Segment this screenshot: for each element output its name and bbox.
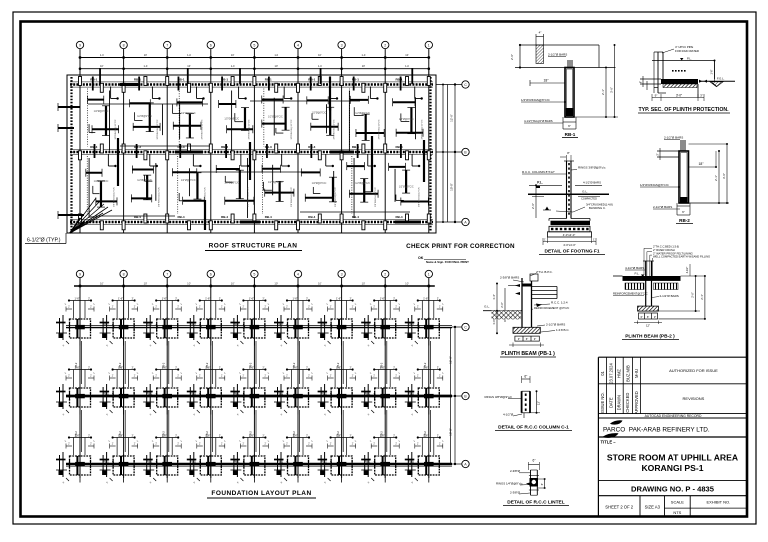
svg-text:10': 10'	[362, 282, 366, 286]
svg-text:1-0: 1-0	[405, 64, 409, 68]
svg-text:18": 18"	[699, 162, 705, 166]
svg-text:P.L.: P.L.	[687, 57, 692, 61]
svg-text:1-0: 1-0	[231, 64, 235, 68]
svg-text:10'-0": 10'-0"	[450, 183, 454, 191]
svg-text:1'-6": 1'-6"	[711, 69, 714, 74]
svg-text:SHEET 2 OF 2: SHEET 2 OF 2	[605, 505, 634, 510]
svg-text:CHECKED: CHECKED	[625, 393, 630, 413]
svg-text:3/8"RINGS@12"C/C: 3/8"RINGS@12"C/C	[248, 187, 250, 207]
svg-text:1'-6": 1'-6"	[336, 297, 341, 300]
svg-text:1'-0": 1'-0"	[492, 319, 496, 325]
svg-text:SIZE A3: SIZE A3	[645, 505, 661, 510]
svg-text:1'-6": 1'-6"	[293, 297, 298, 300]
svg-text:1'-6": 1'-6"	[293, 366, 298, 369]
svg-text:10': 10'	[231, 282, 235, 286]
svg-text:12": 12"	[537, 401, 541, 405]
svg-text:G.L.: G.L.	[484, 305, 490, 309]
svg-text:4: 4	[297, 44, 299, 48]
svg-text:1'-6": 1'-6"	[162, 366, 167, 369]
svg-text:6": 6"	[682, 210, 685, 214]
svg-text:4'-0"x4'-0": 4'-0"x4'-0"	[563, 233, 576, 237]
svg-text:RINGS 1/4"Ø@9"c/c: RINGS 1/4"Ø@9"c/c	[496, 482, 523, 486]
svg-text:4: 4	[297, 273, 299, 277]
svg-text:3/8"RINGS@12"C/C: 3/8"RINGS@12"C/C	[158, 187, 160, 207]
svg-text:DETAIL OF R.C.C LINTEL: DETAIL OF R.C.C LINTEL	[507, 500, 564, 506]
svg-text:PB-1: PB-1	[365, 459, 371, 463]
svg-text:3'-6": 3'-6"	[722, 173, 726, 179]
svg-text:18": 18"	[544, 79, 550, 83]
svg-text:AUTHORIZED FOR ISSUE: AUTHORIZED FOR ISSUE	[669, 368, 718, 373]
svg-text:G.L.: G.L.	[582, 190, 588, 194]
svg-text:PB-1: PB-1	[234, 322, 240, 326]
svg-text:PB-1: PB-1	[321, 391, 327, 395]
svg-text:FOR RAIN WATER: FOR RAIN WATER	[675, 49, 699, 53]
svg-text:1'-6": 1'-6"	[205, 297, 210, 300]
svg-text:6": 6"	[524, 375, 527, 379]
svg-text:Name & Sign. FOR FINAL PRINT: Name & Sign. FOR FINAL PRINT	[426, 260, 469, 264]
svg-text:RINGS 3/8"Ø@9"c/c: RINGS 3/8"Ø@9"c/c	[485, 395, 513, 399]
svg-text:PB-1: PB-1	[277, 391, 283, 395]
svg-text:10': 10'	[275, 64, 279, 68]
svg-text:10': 10'	[100, 282, 104, 286]
svg-text:DETAIL OF R.C.C COLUMN C-1: DETAIL OF R.C.C COLUMN C-1	[498, 425, 569, 431]
svg-text:RB-4: RB-4	[134, 215, 141, 219]
svg-text:1'-6": 1'-6"	[75, 434, 80, 437]
svg-text:RB-4: RB-4	[395, 215, 402, 219]
svg-text:R.C.C. 1:2:4: R.C.C. 1:2:4	[551, 301, 568, 305]
svg-text:PB-1: PB-1	[103, 322, 109, 326]
svg-text:1/2"Ø@9"C/C: 1/2"Ø@9"C/C	[399, 185, 414, 188]
svg-text:SCALE: SCALE	[671, 500, 684, 505]
svg-text:01: 01	[600, 371, 605, 376]
svg-text:STORE ROOM AT UPHILL AREA: STORE ROOM AT UPHILL AREA	[607, 452, 738, 462]
svg-text:2'-1": 2'-1"	[700, 294, 704, 300]
svg-text:F.G.L.: F.G.L.	[717, 77, 725, 81]
svg-text:PB-1: PB-1	[190, 459, 196, 463]
svg-text:R.C.C. COLUMN 8"X12": R.C.C. COLUMN 8"X12"	[522, 170, 555, 174]
svg-text:1'-6": 1'-6"	[205, 366, 210, 369]
svg-text:2'-6": 2'-6"	[500, 302, 504, 308]
svg-text:1/2"Ø@9"C/C: 1/2"Ø@9"C/C	[312, 112, 327, 115]
svg-text:EXHIBIT NO.: EXHIBIT NO.	[706, 500, 730, 505]
svg-text:RB-4: RB-4	[308, 215, 315, 219]
svg-text:1/2"Ø@9"C/C: 1/2"Ø@9"C/C	[137, 115, 152, 118]
svg-text:2'-6": 2'-6"	[510, 54, 514, 60]
svg-text:4'-0"x4'-0": 4'-0"x4'-0"	[563, 243, 576, 247]
svg-text:5: 5	[253, 44, 255, 48]
svg-text:2'-6": 2'-6"	[531, 203, 535, 209]
svg-text:4-1/2"Ø BARS: 4-1/2"Ø BARS	[625, 266, 644, 270]
svg-text:PB-1: PB-1	[408, 322, 414, 326]
svg-text:1'-6": 1'-6"	[118, 366, 123, 369]
svg-text:1'-6": 1'-6"	[75, 297, 80, 300]
svg-text:TYP. SEC. OF PLINTH PROTECTION: TYP. SEC. OF PLINTH PROTECTION.	[638, 107, 729, 113]
svg-text:C: C	[464, 83, 467, 87]
svg-text:PB-1: PB-1	[321, 459, 327, 463]
svg-text:1: 1	[428, 273, 430, 277]
svg-text:1'-6": 1'-6"	[249, 366, 254, 369]
svg-text:PB-1: PB-1	[408, 391, 414, 395]
svg-text:PB-1: PB-1	[365, 322, 371, 326]
svg-text:3": 3"	[700, 94, 703, 98]
svg-text:2: 2	[384, 273, 386, 277]
svg-text:WELL COMPACTED EARTH W/SAND FI: WELL COMPACTED EARTH W/SAND FILLING	[653, 255, 710, 259]
svg-text:6": 6"	[526, 337, 528, 341]
svg-text:PB-1: PB-1	[103, 391, 109, 395]
svg-text:PB-1: PB-1	[103, 459, 109, 463]
svg-text:1'-6": 1'-6"	[118, 434, 123, 437]
svg-text:6": 6"	[540, 483, 544, 485]
svg-text:OK: OK	[418, 256, 424, 260]
svg-text:PB-1: PB-1	[147, 459, 153, 463]
svg-text:6": 6"	[647, 315, 649, 319]
svg-text:6": 6"	[533, 459, 536, 463]
svg-text:6": 6"	[640, 81, 643, 83]
svg-text:6: 6	[210, 273, 212, 277]
svg-text:7: 7	[166, 44, 168, 48]
svg-text:10'-0": 10'-0"	[449, 428, 453, 436]
svg-text:PB-1: PB-1	[147, 322, 153, 326]
svg-text:DATE: DATE	[608, 397, 613, 408]
svg-text:10': 10'	[231, 53, 235, 57]
svg-text:1'-6": 1'-6"	[162, 297, 167, 300]
svg-text:1'-6": 1'-6"	[380, 434, 385, 437]
svg-text:3/8"RINGS@12"C/C: 3/8"RINGS@12"C/C	[115, 119, 117, 139]
svg-text:1-0: 1-0	[318, 64, 322, 68]
svg-text:8: 8	[123, 44, 125, 48]
svg-text:1/2"Ø@9"C/C: 1/2"Ø@9"C/C	[312, 182, 327, 185]
svg-text:1:4:8 B.C.: 1:4:8 B.C.	[556, 328, 570, 332]
svg-text:P.L.: P.L.	[537, 181, 543, 185]
svg-text:3/8"RINGS@12"C/C: 3/8"RINGS@12"C/C	[291, 187, 293, 207]
svg-text:REINFORCEMENT @3"C/C: REINFORCEMENT @3"C/C	[534, 306, 569, 310]
svg-text:1/2"Ø@9"C/C: 1/2"Ø@9"C/C	[355, 112, 370, 115]
svg-text:10': 10'	[187, 282, 191, 286]
svg-text:PB-1: PB-1	[234, 391, 240, 395]
svg-text:PB-1: PB-1	[321, 322, 327, 326]
svg-text:3/8"RINGS@12"C/C: 3/8"RINGS@12"C/C	[291, 119, 293, 139]
svg-text:3/8"RINGS@12"C/C: 3/8"RINGS@12"C/C	[201, 119, 203, 139]
svg-text:1'-6": 1'-6"	[249, 297, 254, 300]
svg-text:1/2"Ø@9"C/C: 1/2"Ø@9"C/C	[268, 181, 283, 184]
svg-text:PB-1: PB-1	[277, 459, 283, 463]
svg-text:2'-1": 2'-1"	[601, 89, 605, 95]
svg-text:2-3/8"Ø: 2-3/8"Ø	[510, 469, 521, 473]
svg-text:1/2"Ø@9"C/C: 1/2"Ø@9"C/C	[94, 180, 109, 183]
svg-text:10': 10'	[100, 64, 104, 68]
svg-text:1'-6": 1'-6"	[423, 434, 428, 437]
svg-text:1'-6": 1'-6"	[380, 297, 385, 300]
svg-text:FOUNDATION LAYOUT PLAN: FOUNDATION LAYOUT PLAN	[211, 490, 311, 497]
svg-text:3/8"RINGS@12"C/C: 3/8"RINGS@12"C/C	[335, 187, 337, 207]
svg-text:M-IU: M-IU	[634, 369, 639, 378]
svg-text:COMPACTED: COMPACTED	[581, 198, 597, 201]
svg-text:10': 10'	[405, 282, 409, 286]
svg-text:1/2"Ø@9"C/C: 1/2"Ø@9"C/C	[355, 182, 370, 185]
svg-text:RB-3: RB-3	[177, 145, 184, 149]
svg-text:2-1/2"Ø BARS: 2-1/2"Ø BARS	[664, 136, 683, 140]
svg-text:RB-2: RB-2	[679, 218, 690, 223]
svg-text:RB-3: RB-3	[134, 145, 141, 149]
svg-text:RB-1: RB-1	[308, 77, 315, 81]
svg-text:3/8"RINGS@12"C/C: 3/8"RINGS@12"C/C	[249, 119, 251, 139]
svg-text:1'-6": 1'-6"	[336, 434, 341, 437]
svg-text:RB-1: RB-1	[395, 77, 402, 81]
svg-text:1/2"Ø@9"C/C: 1/2"Ø@9"C/C	[181, 112, 196, 115]
svg-text:3/8"RINGS@12"C/C: 3/8"RINGS@12"C/C	[375, 187, 377, 207]
svg-text:12'-6": 12'-6"	[450, 114, 454, 122]
svg-text:KORANGI PS-1: KORANGI PS-1	[641, 463, 703, 473]
svg-text:REINFORCEMENT@3"C/C: REINFORCEMENT@3"C/C	[613, 292, 648, 296]
svg-text:PB-1: PB-1	[190, 391, 196, 395]
svg-text:3: 3	[341, 44, 343, 48]
svg-text:HMZ: HMZ	[617, 369, 622, 378]
svg-text:2-3/8"Ø BARS: 2-3/8"Ø BARS	[500, 276, 519, 280]
svg-text:3": 3"	[657, 153, 660, 155]
svg-text:RB-4: RB-4	[221, 215, 228, 219]
svg-text:1'-6": 1'-6"	[423, 366, 428, 369]
svg-text:3": 3"	[518, 337, 520, 341]
svg-text:2-1/2"Ø BARS: 2-1/2"Ø BARS	[653, 205, 672, 209]
svg-text:2'-1": 2'-1"	[714, 175, 718, 181]
svg-text:1'-6": 1'-6"	[380, 366, 385, 369]
svg-text:9": 9"	[655, 94, 658, 98]
svg-text:RINGS 3/8"Ø@9"c/c: RINGS 3/8"Ø@9"c/c	[578, 166, 606, 170]
svg-text:RB-4: RB-4	[177, 215, 184, 219]
svg-text:1'-6": 1'-6"	[423, 297, 428, 300]
svg-text:REVISIONS: REVISIONS	[683, 396, 705, 401]
svg-text:12'-6": 12'-6"	[449, 356, 453, 364]
svg-text:2-1/2"Ø BARS: 2-1/2"Ø BARS	[546, 323, 565, 327]
svg-text:RB-3: RB-3	[221, 145, 228, 149]
svg-text:3/8"RINGS@12"C/C: 3/8"RINGS@12"C/C	[333, 119, 335, 139]
svg-text:4-1/2"(TAG)/2"Ø BARS: 4-1/2"(TAG)/2"Ø BARS	[524, 119, 553, 123]
svg-text:1/4"Ø RINGS@6"C/C: 1/4"Ø RINGS@6"C/C	[521, 98, 551, 102]
svg-text:9: 9	[79, 273, 81, 277]
svg-text:1-0: 1-0	[187, 53, 191, 57]
svg-text:3/8"RINGS@12"C/C: 3/8"RINGS@12"C/C	[418, 187, 420, 207]
svg-text:ROOF STRUCTURE PLAN: ROOF STRUCTURE PLAN	[209, 243, 298, 250]
svg-text:10': 10'	[144, 53, 148, 57]
svg-text:1'-6": 1'-6"	[336, 366, 341, 369]
svg-text:PLINTH BEAM (PB-1 ): PLINTH BEAM (PB-1 )	[501, 351, 555, 357]
svg-text:2-1/2"Ø BARS: 2-1/2"Ø BARS	[548, 53, 567, 57]
svg-text:23.07.2024: 23.07.2024	[608, 363, 613, 384]
svg-text:BLINDING C.: BLINDING C.	[589, 206, 606, 210]
svg-text:1-0: 1-0	[100, 53, 104, 57]
svg-text:RB-3: RB-3	[265, 145, 272, 149]
svg-text:10': 10'	[187, 64, 191, 68]
svg-text:1: 1	[428, 44, 430, 48]
svg-text:ISSUE NO.: ISSUE NO.	[600, 392, 605, 413]
svg-text:C: C	[464, 326, 467, 330]
svg-text:PARCO PAK-ARAB REFINERY LTD.: PARCO PAK-ARAB REFINERY LTD.	[603, 427, 710, 434]
svg-text:PB-1: PB-1	[408, 459, 414, 463]
svg-text:CHECK PRINT FOR CORRECTION: CHECK PRINT FOR CORRECTION	[406, 243, 515, 250]
svg-text:BUZ.M/B: BUZ.M/B	[625, 365, 630, 382]
svg-text:1-0: 1-0	[362, 53, 366, 57]
svg-text:6: 6	[210, 44, 212, 48]
svg-text:PB-1: PB-1	[190, 322, 196, 326]
svg-text:2" RIVER CRUSH: 2" RIVER CRUSH	[653, 248, 675, 252]
svg-text:3: 3	[341, 273, 343, 277]
svg-text:RB-4: RB-4	[352, 215, 359, 219]
svg-text:1-0: 1-0	[274, 53, 278, 57]
svg-text:1'-6": 1'-6"	[293, 434, 298, 437]
svg-text:P.L.: P.L.	[635, 272, 640, 276]
svg-text:1-0: 1-0	[144, 64, 148, 68]
svg-text:2"TH. B.P.C.: 2"TH. B.P.C.	[536, 270, 553, 274]
svg-text:4": 4"	[539, 31, 542, 35]
svg-text:7: 7	[166, 273, 168, 277]
svg-text:1'-6": 1'-6"	[75, 366, 80, 369]
svg-text:AUTOCAD ENGINEERING RECORD: AUTOCAD ENGINEERING RECORD	[645, 414, 702, 418]
svg-text:PB-1: PB-1	[234, 459, 240, 463]
svg-text:NTS: NTS	[673, 510, 681, 515]
svg-text:3": 3"	[654, 315, 656, 319]
svg-text:1/2"Ø@9"C/C: 1/2"Ø@9"C/C	[268, 115, 283, 118]
svg-text:PB-1: PB-1	[365, 391, 371, 395]
svg-text:3/8"RINGS@12"C/C: 3/8"RINGS@12"C/C	[157, 119, 159, 139]
svg-text:PB-1: PB-1	[277, 322, 283, 326]
svg-text:1/2"Ø@9"C/C: 1/2"Ø@9"C/C	[224, 118, 239, 121]
svg-text:8": 8"	[567, 151, 570, 155]
svg-text:3": 3"	[534, 337, 536, 341]
svg-text:8: 8	[123, 273, 125, 277]
svg-text:2" WATER PROOF FELT/LINING: 2" WATER PROOF FELT/LINING	[653, 251, 693, 255]
svg-text:1'-6": 1'-6"	[162, 434, 167, 437]
svg-text:DETAIL OF FOOTING F1: DETAIL OF FOOTING F1	[545, 249, 600, 255]
svg-text:1/2"Ø@9"C/C: 1/2"Ø@9"C/C	[181, 179, 196, 182]
svg-text:5: 5	[253, 273, 255, 277]
svg-text:DRAWN: DRAWN	[617, 395, 622, 410]
svg-text:3'-0": 3'-0"	[676, 94, 682, 98]
svg-text:4-1/2"Ø: 4-1/2"Ø	[503, 413, 514, 417]
svg-text:1'-6": 1'-6"	[249, 434, 254, 437]
svg-text:1'-4": 1'-4"	[492, 294, 496, 300]
svg-text:TITLE –: TITLE –	[601, 440, 617, 445]
svg-text:3/8"RINGS@12"C/C: 3/8"RINGS@12"C/C	[422, 119, 424, 139]
svg-text:RB-1: RB-1	[565, 132, 576, 137]
svg-text:12": 12"	[646, 324, 650, 328]
svg-text:1'-6": 1'-6"	[205, 434, 210, 437]
svg-text:1/4"Ø RINGS@6"C/C: 1/4"Ø RINGS@6"C/C	[640, 183, 670, 187]
svg-text:PB-1: PB-1	[147, 391, 153, 395]
svg-text:4-1/2"Ø BARS: 4-1/2"Ø BARS	[583, 181, 601, 185]
svg-text:RB-1: RB-1	[134, 77, 141, 81]
svg-text:2-1/2"Ø BARS: 2-1/2"Ø BARS	[660, 294, 679, 298]
svg-text:10': 10'	[405, 53, 409, 57]
svg-text:10': 10'	[362, 64, 366, 68]
svg-text:DRAWING NO. P - 4835: DRAWING NO. P - 4835	[631, 484, 715, 493]
svg-text:10': 10'	[144, 282, 148, 286]
svg-text:9: 9	[79, 44, 81, 48]
svg-text:10': 10'	[318, 282, 322, 286]
svg-text:6": 6"	[568, 124, 571, 128]
svg-text:3/8"RINGS@12"C/C: 3/8"RINGS@12"C/C	[378, 119, 380, 139]
svg-text:10': 10'	[318, 53, 322, 57]
svg-text:2'-6": 2'-6"	[691, 292, 695, 298]
svg-text:6-1/2"Ø (TYP.): 6-1/2"Ø (TYP.)	[27, 238, 61, 244]
svg-text:3'-6": 3'-6"	[610, 87, 614, 93]
svg-text:3/8"RINGS@12"C/C: 3/8"RINGS@12"C/C	[114, 187, 116, 207]
svg-text:1'-6": 1'-6"	[118, 297, 123, 300]
svg-text:10': 10'	[274, 282, 278, 286]
svg-text:3": 3"	[640, 315, 642, 319]
svg-text:RB-1: RB-1	[90, 77, 97, 81]
svg-text:1/2"Ø@9"C/C: 1/2"Ø@9"C/C	[94, 110, 109, 113]
svg-text:APPROVED: APPROVED	[634, 391, 639, 414]
svg-text:PLINTH BEAM (PB-2 ): PLINTH BEAM (PB-2 )	[625, 334, 675, 340]
svg-text:RB-4: RB-4	[265, 215, 272, 219]
svg-text:2: 2	[384, 44, 386, 48]
svg-text:2"TH.C.C.BED (1:3:6): 2"TH.C.C.BED (1:3:6)	[653, 245, 679, 249]
svg-text:4-1/2": 4-1/2"	[686, 267, 689, 274]
